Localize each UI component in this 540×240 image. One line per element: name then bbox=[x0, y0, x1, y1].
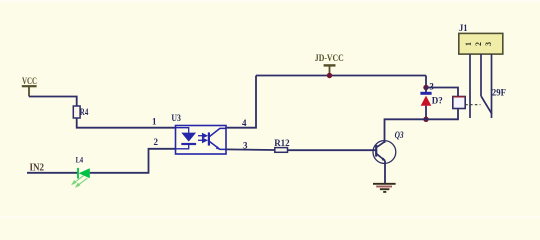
relay pin 2 wire bbox=[480, 54, 482, 96]
phototransistor bbox=[208, 132, 210, 145]
relay pin 1 wire bbox=[469, 54, 471, 118]
switch blade bbox=[481, 96, 492, 114]
internal LED bbox=[176, 128, 189, 133]
wire VCC to R4 bbox=[29, 97, 77, 107]
svg-text:J1: J1 bbox=[459, 23, 468, 33]
emission arrows bbox=[72, 176, 87, 187]
relay pin 3 wire bbox=[491, 54, 493, 118]
svg-text:1: 1 bbox=[152, 117, 157, 127]
ground bbox=[373, 184, 396, 192]
wire U3 pin3 to R12 bbox=[226, 148, 275, 151]
svg-text:VCC: VCC bbox=[22, 77, 37, 87]
svg-text:1: 1 bbox=[464, 42, 473, 46]
wire R12 to Q3 base bbox=[288, 149, 377, 151]
svg-text:3: 3 bbox=[484, 42, 493, 46]
resistor R4 bbox=[73, 106, 80, 118]
actuation dashed link bbox=[465, 104, 480, 106]
svg-text:29F: 29F bbox=[492, 88, 506, 98]
wire R4 to U3 pin1 bbox=[77, 118, 176, 128]
svg-text:2: 2 bbox=[154, 137, 159, 147]
relay coil box bbox=[453, 97, 465, 109]
wire coil branch top bbox=[426, 88, 458, 97]
svg-text:IN2: IN2 bbox=[30, 163, 45, 174]
svg-text:R4: R4 bbox=[80, 107, 89, 117]
wire JD-VCC rail bbox=[256, 75, 426, 77]
node junction top bbox=[423, 85, 428, 90]
svg-text:Q3: Q3 bbox=[395, 130, 404, 140]
optocoupler U3 bbox=[171, 113, 226, 154]
junction dot bbox=[327, 73, 332, 78]
svg-text:D?: D? bbox=[432, 95, 443, 105]
power symbol VCC bbox=[22, 86, 37, 96]
power symbol JD-VCC bbox=[324, 65, 336, 75]
diode D? bbox=[420, 88, 442, 120]
wire IN2 to L4 bbox=[27, 172, 78, 174]
wire coil branch bottom bbox=[426, 109, 458, 120]
svg-text:U3: U3 bbox=[171, 113, 181, 123]
LED L4 bbox=[72, 155, 89, 187]
svg-text:R12: R12 bbox=[274, 138, 290, 148]
wire rail corner down bbox=[425, 76, 427, 89]
svg-text:4: 4 bbox=[242, 118, 247, 128]
relay J1 bbox=[459, 23, 507, 118]
photon arrows bbox=[198, 134, 207, 142]
wire to Q3 collector bbox=[385, 119, 427, 143]
svg-text:2: 2 bbox=[474, 42, 483, 46]
wire Q3 emitter down bbox=[384, 161, 386, 184]
transistor Q3 bbox=[373, 130, 404, 163]
node junction bottom bbox=[423, 117, 428, 122]
wire L4 to U3 pin2 bbox=[90, 149, 176, 173]
resistor R12 bbox=[275, 148, 288, 153]
svg-text:L4: L4 bbox=[76, 155, 84, 165]
svg-text:JD-VCC: JD-VCC bbox=[315, 54, 344, 64]
wire U3 pin4 to JD-VCC rail bbox=[226, 76, 256, 128]
